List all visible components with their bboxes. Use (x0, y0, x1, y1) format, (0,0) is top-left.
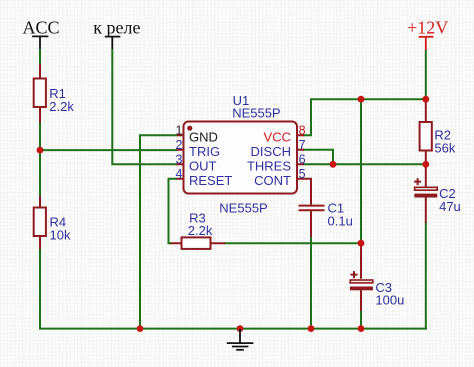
U1 pin stubs right (297, 135, 304, 164)
wire R4 to ground bus (39, 249, 141, 330)
IC U1 NE555P (184, 93, 298, 216)
svg-text:47u: 47u (439, 199, 461, 214)
wire +12V down to rail (425, 50, 427, 100)
capacitor C3 (polarized) (350, 243, 404, 311)
svg-text:0.1u: 0.1u (328, 214, 353, 229)
junction at THRES / R2 / C2 (422, 161, 429, 168)
svg-text:6: 6 (299, 152, 306, 166)
junction at +12V rail / riser (358, 96, 365, 103)
resistor R1 (34, 64, 75, 123)
wire +12V rail (310, 98, 426, 100)
supply pin bar ACC (32, 35, 48, 37)
svg-text:ACC: ACC (22, 17, 59, 37)
svg-text:10k: 10k (50, 228, 71, 243)
svg-text:RESET: RESET (189, 173, 232, 188)
svg-text:56k: 56k (434, 141, 455, 156)
junction bus / C1 (308, 325, 315, 332)
wire R3 to +12V riser node (225, 242, 362, 244)
junction at DISCH-THRES (330, 161, 337, 168)
wire к реле vertical to OUT (111, 49, 177, 165)
wire RESET to R3 (168, 178, 178, 243)
junction bus / C3 (358, 325, 365, 332)
svg-text:OUT: OUT (189, 159, 217, 174)
supply pin bar к реле (105, 36, 121, 38)
resistor R4 (34, 196, 71, 249)
junction bus / ground symbol (237, 325, 244, 332)
supply pin stem ACC (39, 36, 41, 49)
wire ACC to R1 (39, 49, 41, 65)
wire C2 bottom to bus (425, 222, 427, 330)
svg-text:к реле: к реле (93, 17, 140, 37)
svg-text:1: 1 (176, 123, 183, 137)
junction at TRIG / R1 / R4 (37, 147, 44, 154)
wire R1 to TRIG node and R4 (39, 122, 41, 197)
supply pin bar +12V (419, 36, 434, 38)
ground symbol (227, 329, 254, 350)
svg-text:2: 2 (176, 138, 183, 152)
capacitor C1 (299, 201, 353, 237)
resistor R3 (171, 210, 226, 249)
svg-text:3: 3 (176, 152, 183, 166)
svg-text:NE555P: NE555P (232, 106, 280, 121)
svg-text:DISCH: DISCH (251, 144, 291, 159)
svg-text:5: 5 (299, 167, 306, 181)
wire ground bus (140, 328, 427, 330)
supply pin stem к реле (111, 37, 113, 50)
svg-text:+12V: +12V (407, 18, 448, 38)
wire VCC pin8 riser (303, 99, 311, 136)
junction at +12V rail / R2 (422, 96, 429, 103)
svg-text:100u: 100u (375, 293, 404, 308)
wire C3 bottom to bus (360, 310, 362, 329)
svg-text:8: 8 (299, 123, 306, 137)
svg-text:GND: GND (189, 130, 218, 145)
svg-text:TRIG: TRIG (189, 144, 220, 159)
U1 pin5 CONT wire to C1 (dark red) (297, 178, 311, 205)
capacitor C2 (polarized) (414, 164, 461, 223)
svg-text:THRES: THRES (247, 159, 291, 174)
svg-text:NE555P: NE555P (219, 201, 267, 216)
svg-text:VCC: VCC (264, 130, 291, 145)
wire THRES pin6 to R2/C2 node (303, 163, 426, 165)
wire DISCH pin7 to THRES node (303, 149, 333, 165)
wire TRIG net horizontal (39, 149, 178, 151)
svg-text:2.2k: 2.2k (188, 223, 213, 238)
wire riser +12V rail to C3 node (360, 99, 362, 243)
U1 pin stubs left (177, 135, 184, 179)
junction bus / GND branch (137, 325, 144, 332)
wire GND pin1 to bus (140, 134, 178, 329)
svg-text:4: 4 (176, 167, 183, 181)
wire C1 bottom to bus (310, 236, 312, 329)
supply pin stem +12V (425, 37, 427, 51)
svg-text:CONT: CONT (254, 173, 291, 188)
resistor R2 (420, 99, 456, 165)
svg-text:2.2k: 2.2k (49, 99, 74, 114)
junction at R3 / C3 / riser (358, 240, 365, 247)
svg-text:7: 7 (299, 138, 306, 152)
